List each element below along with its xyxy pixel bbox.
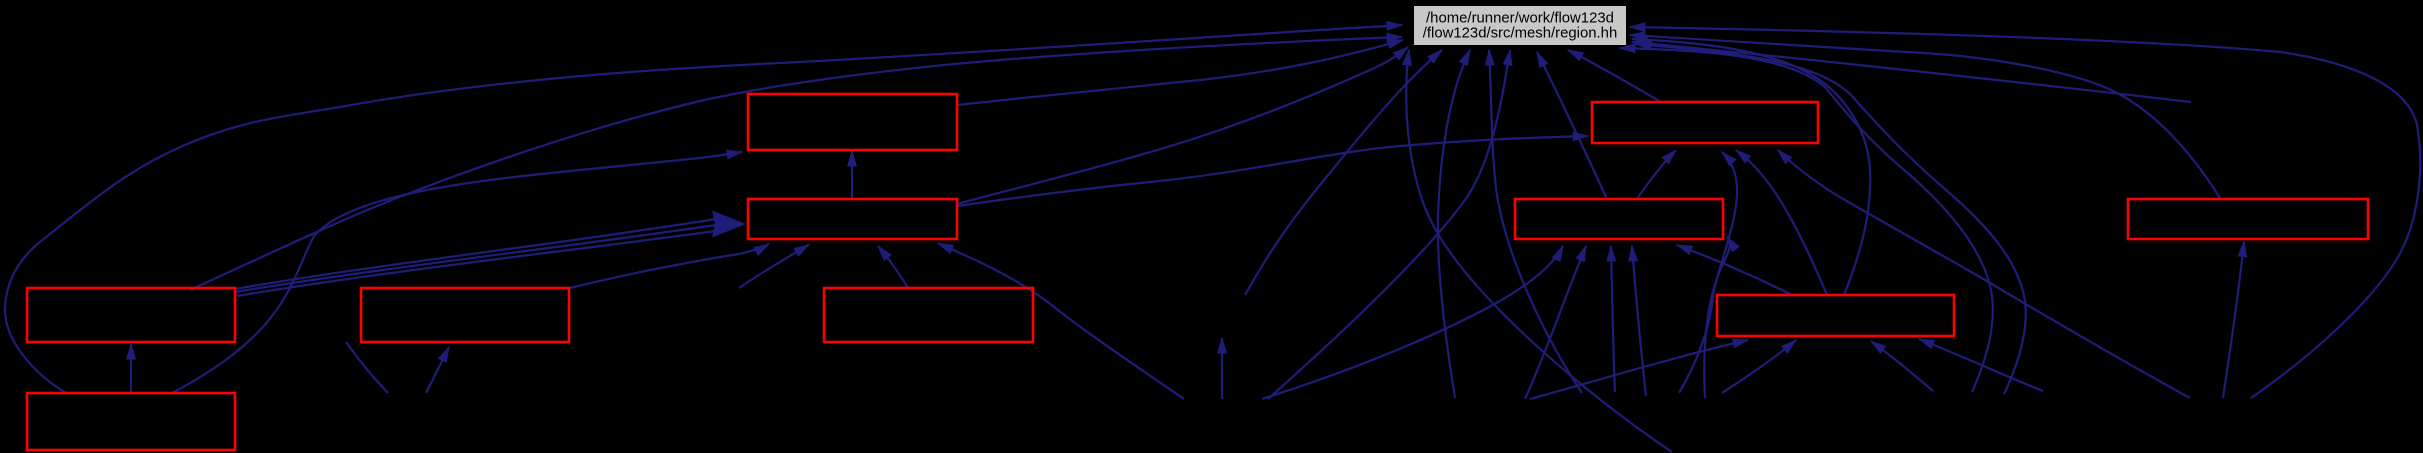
- node B3: [748, 199, 957, 239]
- wire E29 bottom node I5b to box3 (sweep): [938, 244, 1184, 400]
- wire E14 box4 to region.hh: [1537, 52, 1606, 197]
- wire E21 bottom node to box2 (hugs box4 right): [1704, 152, 1737, 398]
- node B10: [27, 393, 235, 450]
- node B7: [361, 288, 569, 342]
- node region.hh (grey): [1414, 6, 1626, 45]
- node B4: [1515, 199, 1723, 239]
- wire E42 bottom node to box9: [1722, 340, 1796, 393]
- wire E22 box9 to box2: [1736, 150, 1827, 295]
- wire V1 bottom node to region.hh (tall right curve a): [1620, 48, 1993, 392]
- wire E12 box5 to region.hh: [1630, 35, 2220, 198]
- wire E17 box3 to box1: [851, 151, 853, 199]
- wire E10 box2 to region.hh: [1568, 50, 1661, 102]
- wire E32 bottom node to box4: [1611, 246, 1615, 392]
- node B1: [748, 94, 957, 150]
- wire E15 bottom node arc to region.hh: [1406, 50, 1672, 452]
- wire E16 box9 to region.hh: [1632, 39, 1870, 295]
- wire E28 box8 to box3: [878, 246, 908, 288]
- wire E13 invisible top-right node to region.hh: [1632, 42, 2191, 102]
- wire E44 bottom-right node to box9: [1919, 339, 2043, 391]
- wire E9 bottom node I5b to region.hh: [1268, 50, 1510, 399]
- wire E23 bottom-right node to box2: [1778, 150, 2190, 398]
- wire E25b box6 to box3 (bundle): [235, 225, 716, 292]
- wire E18 box10 to box1: [172, 152, 742, 393]
- wire E11 bottom-right node to region.hh (big right C-curve): [1630, 27, 2420, 398]
- wire E38 box10 to box6: [130, 344, 132, 393]
- wire E2 box6 to region.hh (skims box1 top): [190, 37, 1402, 290]
- svg-text:/home/runner/work/flow123d: /home/runner/work/flow123d: [1426, 11, 1614, 27]
- wire E20 box4 to box2: [1637, 150, 1676, 199]
- wire E25a box6 to box3 (bundle): [235, 219, 716, 289]
- wire E30 bottom node I5b to box4: [1262, 246, 1563, 399]
- node B9: [1717, 295, 1954, 336]
- wire V2 bottom node to region.hh (tall right curve b): [1636, 44, 2026, 394]
- wire E36 bottom-right node to box5: [2223, 242, 2244, 399]
- node B8: [824, 288, 1033, 342]
- wire E3 box1 to region.hh: [957, 40, 1403, 105]
- node B5: [2128, 199, 2368, 239]
- wire E41 bottom node to box9: [1530, 340, 1748, 399]
- wire E43 bottom node to box9: [1871, 341, 1933, 391]
- wire E40 bottom node I5a to box7: [426, 347, 449, 393]
- wire E5 box3 to region.hh: [957, 47, 1408, 204]
- wire E26 invisible node I4b to box3: [739, 245, 809, 289]
- svg-text:/flow123d/src/mesh/region.hh: /flow123d/src/mesh/region.hh: [1423, 26, 1618, 42]
- wire E34 box9 to box4: [1677, 245, 1792, 295]
- node B6: [27, 288, 235, 342]
- wire E31 bottom node to box4: [1525, 246, 1586, 399]
- node B2: [1592, 102, 1818, 143]
- wire E8 bottom node to region.hh (vertical curve B): [1489, 50, 1582, 393]
- wire E7 bottom node to region.hh (vertical curve A): [1438, 50, 1470, 398]
- wire E25c box6 to box3 (bundle): [237, 231, 716, 296]
- wire E6 invisible node I4a to region.hh: [1245, 50, 1442, 295]
- thick merged arrowhead into box3 left edge: [712, 211, 746, 238]
- wire E33 bottom node to box4: [1632, 246, 1646, 396]
- wire E27 box7 to box3: [570, 244, 769, 288]
- wire E39 bottom node I5a curve to box7 corner: [346, 342, 388, 393]
- wire E45 bottom node I5b to invisible node I4a: [1221, 338, 1223, 399]
- wire E19 box3 to box2: [957, 136, 1588, 206]
- wire E35 bottom node to box4 (right edge): [1679, 237, 1730, 393]
- wire E1 box10 to region.hh (big left C-curve): [5, 25, 1402, 393]
